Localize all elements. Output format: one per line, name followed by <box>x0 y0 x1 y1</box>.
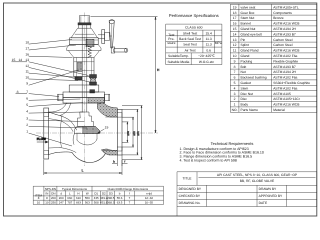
title block <box>177 172 317 216</box>
svg-text:f: f <box>129 192 130 196</box>
svg-text:Stem: Stem <box>241 86 249 90</box>
svg-text:4: 4 <box>26 110 28 114</box>
svg-text:16: 16 <box>25 53 29 57</box>
svg-text:11: 11 <box>25 70 29 74</box>
flange bolt right <box>105 94 110 100</box>
svg-text:10: 10 <box>45 201 49 205</box>
leader 13 <box>29 62 89 76</box>
svg-text:d: d <box>60 192 62 196</box>
svg-text:Body: Body <box>241 103 249 107</box>
seat section hatch <box>83 127 100 134</box>
svg-text:12: 12 <box>233 43 237 47</box>
svg-text:250: 250 <box>51 201 56 205</box>
svg-text:14: 14 <box>233 32 237 36</box>
svg-text:4: 4 <box>234 86 236 90</box>
body-bonnet flange joint <box>63 92 105 98</box>
svg-text:2: 2 <box>26 123 28 127</box>
inlet flange <box>44 108 49 159</box>
svg-text:8: 8 <box>234 65 236 69</box>
leader 11 <box>29 73 79 77</box>
svg-text:5: 5 <box>234 81 236 85</box>
svg-text:ASTM A182 F6a: ASTM A182 F6a <box>273 76 297 80</box>
svg-text:b: b <box>113 159 115 163</box>
packing <box>78 62 83 72</box>
svg-text:3: 3 <box>26 116 28 120</box>
svg-text:Carbon Steel: Carbon Steel <box>273 38 293 42</box>
svg-text:Splint: Splint <box>241 43 249 47</box>
bonnet flange <box>69 85 99 92</box>
svg-text:610: 610 <box>76 196 81 200</box>
tube collar <box>78 23 91 25</box>
svg-text:ASTM A194 2H: ASTM A194 2H <box>273 70 296 74</box>
leader 7 <box>29 94 59 97</box>
svg-text:55.6: 55.6 <box>117 196 123 200</box>
outlet flange <box>117 110 122 156</box>
svg-text:Stem Nut: Stem Nut <box>241 16 255 20</box>
svg-text:15.4: 15.4 <box>205 31 212 35</box>
leader 19 <box>98 129 105 133</box>
svg-text:ASTM A105: ASTM A105 <box>273 92 291 96</box>
svg-text:CLASS 600: CLASS 600 <box>185 25 202 29</box>
svg-text:D2: D2 <box>102 192 106 196</box>
flange bolt left <box>58 94 63 100</box>
centerline stem axis <box>84 13 86 167</box>
svg-text:Material: Material <box>273 108 285 112</box>
svg-text:16~35: 16~35 <box>145 201 154 205</box>
gland <box>75 77 82 81</box>
svg-text:ASTM A105+STL: ASTM A105+STL <box>273 5 299 9</box>
svg-text:Gland eye bolt: Gland eye bolt <box>241 32 262 36</box>
svg-text:11: 11 <box>233 49 237 53</box>
svg-text:valve seat: valve seat <box>241 5 256 9</box>
svg-text:ASTM A216 WCB: ASTM A216 WCB <box>273 22 300 26</box>
svg-text:Gland Nut: Gland Nut <box>241 27 256 31</box>
svg-text:Gland: Gland <box>241 54 250 58</box>
svg-text:2: 2 <box>234 97 236 101</box>
svg-text:4. Test & Inspect conform to A: 4. Test & Inspect conform to API 598 <box>180 158 237 162</box>
svg-text:8: 8 <box>46 196 48 200</box>
svg-text:550: 550 <box>85 196 90 200</box>
svg-text:H: H <box>157 68 160 72</box>
svg-text:9: 9 <box>234 59 236 63</box>
leader 1 <box>29 133 72 146</box>
seat bore <box>76 134 78 141</box>
svg-text:435: 435 <box>94 196 99 200</box>
svg-text:Parts Name: Parts Name <box>241 108 259 112</box>
svg-text:ASTM A193 B7: ASTM A193 B7 <box>273 65 296 69</box>
leader 12 <box>29 67 92 82</box>
svg-text:15: 15 <box>12 58 16 62</box>
svg-text:787: 787 <box>67 201 72 205</box>
svg-text:17: 17 <box>25 46 29 50</box>
leader 15 14 13 group underline <box>12 61 28 63</box>
svg-text:10: 10 <box>37 201 41 205</box>
inlet hub <box>49 112 56 115</box>
svg-text:12: 12 <box>25 64 29 68</box>
svg-text:Carbon Steel: Carbon Steel <box>273 43 293 47</box>
svg-text:NPS-DN: NPS-DN <box>45 187 56 191</box>
svg-text:Typical Dimensions: Typical Dimensions <box>62 187 87 191</box>
svg-text:CHECKED BY: CHECKED BY <box>179 194 201 198</box>
stem nut section <box>86 39 94 47</box>
leader 9 <box>29 70 79 85</box>
svg-text:6: 6 <box>234 76 236 80</box>
svg-text:Backseat bushing: Backseat bushing <box>241 76 267 80</box>
svg-text:7: 7 <box>234 70 236 74</box>
stem protect tube <box>80 15 90 17</box>
flange diameter dimension lines <box>126 122 128 142</box>
parts list table <box>230 4 316 112</box>
svg-text:19: 19 <box>105 126 109 130</box>
svg-text:L: L <box>82 169 84 173</box>
svg-text:ASTM A194 2H: ASTM A194 2H <box>273 27 296 31</box>
svg-text:Disc: Disc <box>241 97 248 101</box>
b f dimensions <box>116 155 118 166</box>
leader 6 <box>29 99 81 100</box>
svg-text:Bronze: Bronze <box>273 16 284 20</box>
svg-text:ASTM A216 WCB: ASTM A216 WCB <box>273 49 300 53</box>
svg-text:1: 1 <box>26 130 28 134</box>
svg-text:L: L <box>69 192 71 196</box>
outlet lower wall <box>102 149 118 155</box>
svg-text:BB, RF, GLOBE VALVE: BB, RF, GLOBE VALVE <box>240 179 275 183</box>
gland eye bolt and nuts <box>90 75 97 78</box>
svg-text:660: 660 <box>67 196 72 200</box>
svg-text:7: 7 <box>26 90 28 94</box>
stem thread <box>88 46 92 57</box>
svg-text:13: 13 <box>25 58 29 62</box>
svg-text:Gear Box: Gear Box <box>241 11 255 15</box>
svg-text:TITLE: TITLE <box>183 177 193 181</box>
leader 8 7 group underline <box>16 93 28 95</box>
svg-text:DESIGNED BY: DESIGNED BY <box>179 187 202 191</box>
svg-text:6: 6 <box>26 97 28 101</box>
svg-text:ASTM A193 B7: ASTM A193 B7 <box>273 32 296 36</box>
svg-text:Packing: Packing <box>241 59 253 63</box>
technical requirements list <box>180 147 264 162</box>
svg-text:Bolt: Bolt <box>241 65 247 69</box>
svg-text:13: 13 <box>233 38 237 42</box>
svg-text:Class 600lb Flange Dimensions: Class 600lb Flange Dimensions <box>107 187 148 191</box>
body neck left outline <box>49 103 67 112</box>
svg-text:1: 1 <box>234 103 236 107</box>
handwheel hub plate <box>102 30 105 44</box>
body bottom <box>72 149 108 163</box>
svg-text:ASTM A216 WCB: ASTM A216 WCB <box>273 103 300 107</box>
svg-text:DATE: DATE <box>259 201 268 205</box>
svg-text:Performance Specifications: Performance Specifications <box>169 13 219 18</box>
svg-text:Shell Test: Shell Test <box>183 31 197 35</box>
svg-text:Technical Requirements: Technical Requirements <box>211 141 254 146</box>
svg-text:ssure: ssure <box>167 41 175 45</box>
svg-text:D3: D3 <box>109 192 113 196</box>
svg-text:ϕD3: ϕD3 <box>127 131 130 136</box>
svg-text:H: H <box>77 192 79 196</box>
svg-text:63.5: 63.5 <box>117 201 123 205</box>
svg-text:18: 18 <box>233 11 237 15</box>
leader 10 <box>29 79 78 81</box>
leader 18 <box>29 40 72 45</box>
svg-text:298.5: 298.5 <box>107 196 115 200</box>
svg-text:NO.: NO. <box>232 108 238 112</box>
svg-text:7: 7 <box>129 201 131 205</box>
svg-text:9: 9 <box>26 82 28 86</box>
svg-text:693: 693 <box>76 201 81 205</box>
svg-text:200: 200 <box>59 196 64 200</box>
body neck right outline <box>102 103 118 109</box>
svg-text:DRAWN BY: DRAWN BY <box>259 187 277 191</box>
svg-text:ASTM A182 F6a: ASTM A182 F6a <box>273 54 297 58</box>
H dimension extension top <box>91 16 158 18</box>
svg-text:19: 19 <box>233 5 237 9</box>
svg-text:W.O.G.etc: W.O.G.etc <box>199 60 215 64</box>
svg-text:Components: Components <box>273 11 292 15</box>
svg-text:ϕD2: ϕD2 <box>133 131 136 136</box>
svg-text:MPa: MPa <box>215 41 222 45</box>
svg-text:8: 8 <box>17 90 19 94</box>
handwheel <box>109 21 114 49</box>
svg-text:ϕD1: ϕD1 <box>137 131 140 136</box>
svg-text:n-ϕd: n-ϕd <box>146 192 152 196</box>
dimension table <box>33 186 163 204</box>
svg-text:ASTM A182 F6a: ASTM A182 F6a <box>273 86 297 90</box>
svg-text:10: 10 <box>233 54 237 58</box>
svg-text:ASTM A105+13Cr: ASTM A105+13Cr <box>273 97 301 101</box>
H dimension line <box>155 17 157 133</box>
FLOW arrow <box>37 141 46 143</box>
wheel axis <box>111 24 113 47</box>
svg-text:Gasket: Gasket <box>241 81 252 85</box>
svg-text:18: 18 <box>25 41 29 45</box>
eyebolt lower nut <box>90 90 95 93</box>
svg-text:b: b <box>119 192 121 196</box>
outlet bore lines <box>106 116 118 118</box>
svg-text:12~32: 12~32 <box>145 196 154 200</box>
leader 4 <box>29 112 84 113</box>
leader 5 <box>29 103 83 107</box>
svg-text:200: 200 <box>51 196 56 200</box>
svg-text:11.3: 11.3 <box>206 43 212 47</box>
leader 16 <box>29 56 73 57</box>
body inner neck <box>60 103 71 116</box>
leader 17 <box>29 45 76 50</box>
disc <box>78 112 94 127</box>
bonnet <box>74 58 94 77</box>
svg-text:7: 7 <box>129 196 131 200</box>
svg-text:−29~425℃: −29~425℃ <box>198 54 215 58</box>
svg-text:SuitableTemp.: SuitableTemp. <box>168 54 189 58</box>
svg-text:368.3: 368.3 <box>107 201 115 205</box>
svg-text:Back Seal Test: Back Seal Test <box>179 37 201 41</box>
svg-text:SS304+Flexible Graphite: SS304+Flexible Graphite <box>273 81 310 85</box>
svg-text:Flexible Graphite: Flexible Graphite <box>273 59 298 63</box>
svg-text:11.3: 11.3 <box>206 37 212 41</box>
svg-text:563: 563 <box>85 201 90 205</box>
svg-text:15: 15 <box>233 27 237 31</box>
svg-text:5: 5 <box>26 103 28 107</box>
svg-text:14: 14 <box>18 58 22 62</box>
worm shaft <box>98 34 104 36</box>
body interior curves <box>60 121 73 132</box>
svg-text:Seal Test: Seal Test <box>183 43 197 47</box>
svg-text:Bonnet: Bonnet <box>241 22 252 26</box>
inlet bolt holes <box>44 113 49 117</box>
svg-text:16: 16 <box>233 22 237 26</box>
svg-text:Pin: Pin <box>241 38 246 42</box>
svg-text:W: W <box>86 192 89 196</box>
crank handle <box>111 47 115 53</box>
svg-text:Gland Fland: Gland Fland <box>241 49 259 53</box>
svg-text:10: 10 <box>25 75 29 79</box>
svg-text:3: 3 <box>234 92 236 96</box>
centerline pipe axis <box>36 132 158 134</box>
stem <box>81 25 83 112</box>
svg-text:0.6: 0.6 <box>206 48 211 52</box>
svg-text:Air Test: Air Test <box>185 48 196 52</box>
seat ring (19) <box>75 127 100 134</box>
gearbox body <box>70 38 99 45</box>
svg-text:Suitable Media: Suitable Media <box>167 60 189 64</box>
leader 3 <box>29 120 85 122</box>
svg-text:IN: IN <box>45 192 48 196</box>
svg-text:Nut: Nut <box>241 70 246 74</box>
svg-text:APPROVED BY: APPROVED BY <box>259 194 283 198</box>
inlet bore lines <box>49 119 60 121</box>
gearbox cover trapezoid <box>71 28 97 38</box>
svg-text:508: 508 <box>94 201 99 205</box>
outlet upper wall <box>98 103 118 117</box>
svg-text:Disc Nut: Disc Nut <box>241 92 254 96</box>
L dimension <box>43 160 45 176</box>
leader 2 <box>29 126 87 128</box>
svg-text:247: 247 <box>59 201 64 205</box>
svg-text:DRAWING No.: DRAWING No. <box>179 201 201 205</box>
performance specifications table <box>166 24 222 65</box>
svg-text:D1: D1 <box>94 192 98 196</box>
svg-text:17: 17 <box>233 16 237 20</box>
yoke <box>67 45 101 51</box>
svg-text:DN: DN <box>51 192 55 196</box>
svg-text:f: f <box>124 159 125 163</box>
svg-text:API CAST STEEL, NPS 8~10, CLAS: API CAST STEEL, NPS 8~10, CLASS 600, GEA… <box>217 173 298 177</box>
